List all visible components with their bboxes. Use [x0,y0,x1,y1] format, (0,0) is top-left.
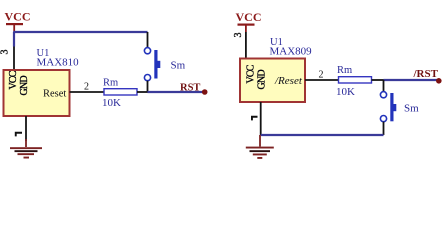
svg-text:Reset: Reset [43,89,66,100]
pushbutton Sm (left) : top circle [144,48,150,54]
ground bar 2 (left) [15,150,38,152]
pushbutton Sm (right) : top pin wire [383,80,385,92]
svg-text:GND: GND [19,76,30,96]
pin number 1 (left) [15,132,22,137]
pushbutton Sm (right) : actuator nub [394,104,397,111]
pushbutton Sm (left) : bottom pin wire [147,81,149,92]
svg-text:3: 3 [233,33,244,38]
svg-text:RST: RST [180,83,200,94]
pushbutton Sm (right) : bottom circle [380,116,386,122]
node dot RST (left) [202,89,208,95]
wire ground run (right) [261,134,384,136]
pushbutton Sm (left) : actuator nub [158,61,161,68]
svg-text:GND: GND [257,70,268,90]
ground bar 3 (right) [253,154,267,156]
svg-text:VCC: VCC [5,10,31,24]
svg-text:Sm: Sm [171,60,186,72]
pin 1 wire (right U1) [260,102,262,135]
chip U1 MAX809 body [240,59,305,103]
svg-text:Sm: Sm [404,103,419,115]
svg-text:VCC: VCC [8,70,19,89]
power VCC bar (right) [238,24,255,26]
ground bar 3 (left) [18,153,35,155]
wire from VCC line down to switch (left) [147,32,149,47]
pin 1 wire (left U1) [25,116,27,141]
pin 3 wire (right U1) [245,32,247,59]
pin number 1 (right) [251,116,258,121]
ground bar 1 (right) [246,147,274,149]
ground bar 2 (right) [250,150,271,152]
node dot /RST (right) [436,78,442,84]
svg-text:Rm: Rm [337,65,352,76]
power VCC bar (left) [6,23,23,25]
ground stem (right) [259,135,261,147]
svg-text:VCC: VCC [236,10,262,24]
svg-text:10K: 10K [336,86,355,98]
svg-text:MAX810: MAX810 [37,57,80,69]
pin 3 wire (left U1) [13,47,15,71]
svg-text:2: 2 [319,70,324,81]
pin 2 wire (left U1) [70,91,105,93]
pin 2 wire (right U1) [305,79,339,81]
svg-text:VCC: VCC [246,64,257,83]
pushbutton Sm (left) : actuator bar [154,50,157,79]
wire resistor to RST node (left) [148,91,204,93]
ground stem (left) [25,139,27,147]
svg-text:Rm: Rm [103,78,118,89]
pushbutton Sm (left) : bottom circle [144,75,150,81]
pushbutton Sm (right) : actuator bar [390,93,393,121]
resistor Rm (left) [104,89,137,95]
ground bar 4 (right) [257,157,262,159]
chip U1 MAX810 body [4,70,70,116]
svg-text:10K: 10K [102,97,121,109]
wire VCC vertical (left) [13,32,15,47]
resistor right pin (left) [137,91,148,93]
resistor right pin (right) [372,79,384,81]
power VCC stem (left) [13,25,15,32]
svg-text:/RST: /RST [413,68,439,80]
resistor Rm (right) [339,77,372,83]
wire resistor to RST node (right) [384,79,438,81]
power VCC stem (right) [245,26,247,33]
svg-text:MAX809: MAX809 [270,46,313,58]
svg-text:/Reset: /Reset [274,75,303,87]
pushbutton Sm (right) : bottom pin wire [383,122,385,135]
wire VCC horizontal to switch [13,31,147,33]
svg-text:3: 3 [0,50,11,55]
pushbutton Sm (right) : top circle [380,92,386,98]
svg-text:2: 2 [84,82,89,93]
ground bar 4 (left) [24,157,30,159]
ground bar 1 (left) [10,147,42,149]
